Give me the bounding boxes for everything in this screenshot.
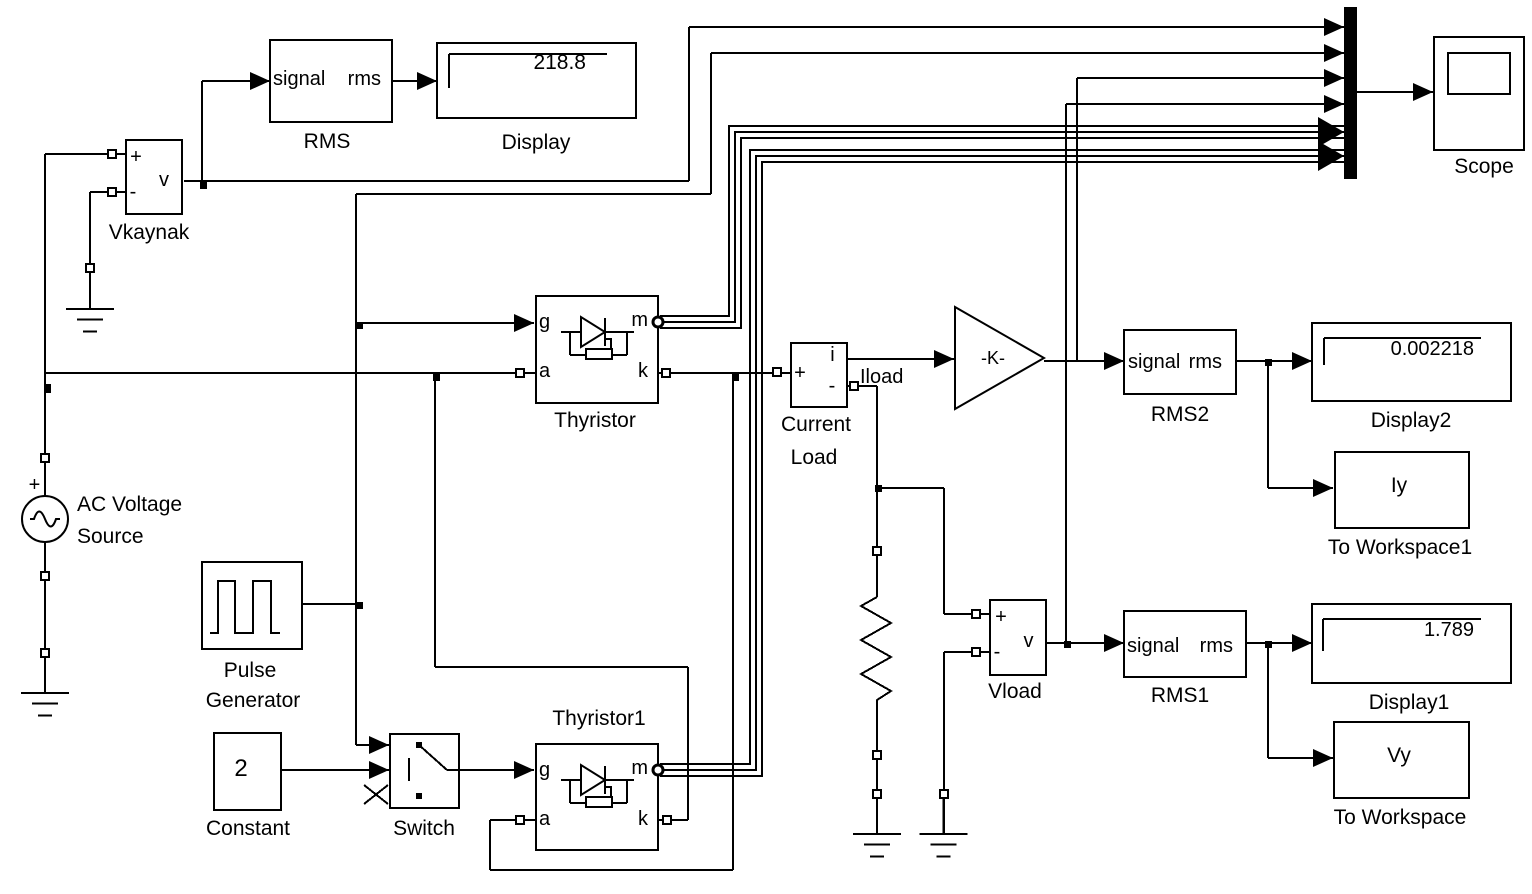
svg-text:v: v [159,169,169,191]
svg-text:+: + [995,606,1007,628]
svg-text:AC Voltage: AC Voltage [77,493,182,516]
svg-text:1.789: 1.789 [1424,619,1474,641]
svg-text:a: a [539,360,551,382]
svg-text:Thyristor: Thyristor [554,409,636,432]
svg-text:Vy: Vy [1387,744,1411,767]
svg-text:Vkaynak: Vkaynak [109,221,190,244]
svg-text:v: v [1024,630,1034,652]
svg-text:i: i [830,344,834,366]
svg-text:m: m [631,757,648,779]
svg-text:Switch: Switch [393,817,455,840]
svg-text:-: - [829,375,836,397]
svg-text:RMS1: RMS1 [1151,684,1209,707]
svg-text:Iload: Iload [860,366,903,388]
svg-text:rms: rms [1200,635,1233,657]
svg-text:k: k [638,360,649,382]
svg-text:Display2: Display2 [1371,409,1452,432]
svg-text:RMS: RMS [304,130,351,153]
svg-text:+: + [130,146,142,168]
svg-text:2: 2 [234,755,247,782]
svg-text:Display: Display [502,131,571,154]
svg-text:signal: signal [1127,635,1179,657]
svg-text:signal: signal [1128,351,1180,373]
svg-text:a: a [539,808,551,830]
svg-text:+: + [29,474,41,496]
svg-text:g: g [539,311,550,333]
svg-text:Source: Source [77,525,144,548]
svg-text:signal: signal [273,68,325,90]
svg-text:Constant: Constant [206,817,290,840]
svg-text:rms: rms [1189,351,1222,373]
svg-text:Pulse: Pulse [224,659,277,682]
svg-text:Load: Load [791,446,838,469]
svg-text:rms: rms [348,68,381,90]
svg-text:To Workspace1: To Workspace1 [1328,536,1472,559]
svg-text:Thyristor1: Thyristor1 [552,707,645,730]
svg-text:-: - [130,181,137,203]
svg-text:To Workspace: To Workspace [1334,806,1467,829]
svg-text:k: k [638,808,649,830]
svg-text:Display1: Display1 [1369,691,1450,714]
svg-text:Current: Current [781,413,851,436]
svg-text:-K-: -K- [981,348,1005,368]
svg-text:g: g [539,759,550,781]
svg-text:Iy: Iy [1391,474,1408,497]
svg-text:-: - [994,641,1001,663]
svg-text:Scope: Scope [1454,155,1514,178]
svg-text:Generator: Generator [206,689,301,712]
svg-text:218.8: 218.8 [533,51,586,74]
svg-text:RMS2: RMS2 [1151,403,1209,426]
svg-text:0.002218: 0.002218 [1391,338,1474,360]
svg-text:m: m [631,309,648,331]
svg-text:Vload: Vload [988,680,1042,703]
svg-text:+: + [794,362,806,384]
